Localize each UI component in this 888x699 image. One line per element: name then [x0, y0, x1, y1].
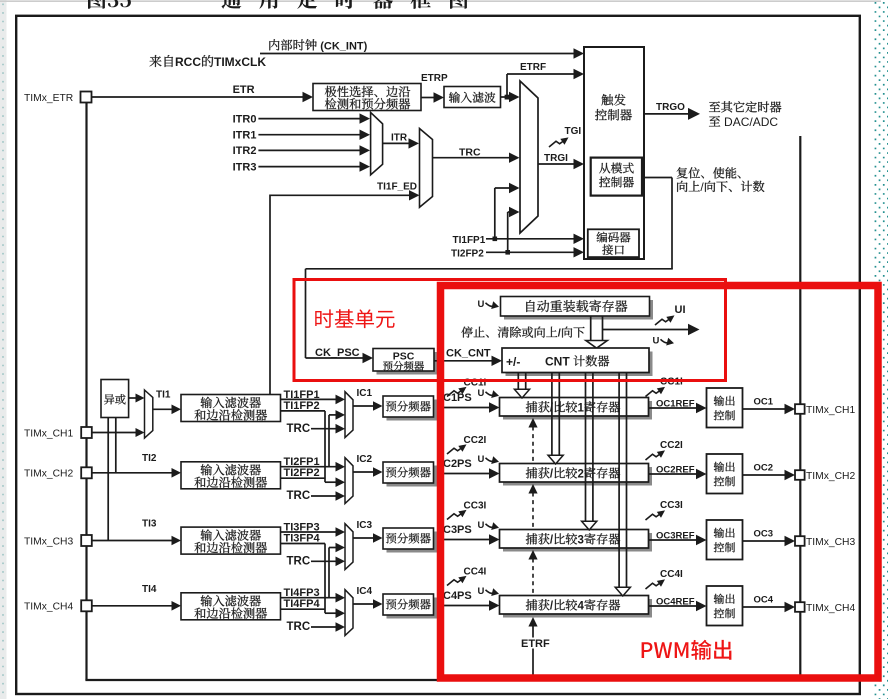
wire counter bus to CCR4: [618, 373, 620, 588]
wire mux input 2 row 2: [325, 481, 337, 483]
svg-text:1: 1: [578, 403, 585, 415]
counter CNT: [506, 352, 653, 377]
block output control 3: [707, 520, 743, 560]
svg-text:TRC: TRC: [287, 423, 311, 435]
mux TI1 selector: [145, 390, 153, 438]
wire ETRF into CCR4: [528, 617, 537, 627]
svg-text:ITR: ITR: [391, 133, 408, 144]
mux TRGI selector: [520, 81, 538, 233]
svg-text:CC2I: CC2I: [464, 435, 487, 446]
pad TIMx_CH1 left: [81, 427, 92, 438]
node CK_INT internal clock label: [269, 39, 316, 50]
svg-text:TIMx_CH3: TIMx_CH3: [806, 537, 855, 548]
gate XOR: [101, 380, 129, 418]
wire TI2FP1 cross up: [328, 415, 330, 467]
svg-text:U: U: [478, 454, 485, 465]
wire XOR output: [129, 397, 136, 399]
svg-text:ITR3: ITR3: [233, 161, 257, 173]
svg-text:CC2I: CC2I: [660, 440, 683, 451]
annotation label PWM输出: [642, 640, 732, 660]
svg-text:OC2: OC2: [754, 463, 774, 474]
svg-text:C3PS: C3PS: [443, 524, 472, 536]
svg-text:4: 4: [578, 601, 585, 613]
wire XOR input from CH2: [115, 418, 117, 473]
svg-text:TI1FP1: TI1FP1: [453, 235, 486, 246]
wire counter bus to CCR2: [551, 373, 553, 456]
svg-text:/: /: [558, 328, 561, 340]
register capture/compare 4 CCR4: [503, 599, 652, 618]
svg-text:UI: UI: [675, 304, 686, 316]
block output control 1: [707, 388, 743, 428]
svg-text:U: U: [478, 299, 485, 310]
register auto-reload ARR: [504, 300, 653, 320]
svg-text:CC3I: CC3I: [660, 500, 683, 511]
svg-text:IC3: IC3: [357, 520, 373, 531]
svg-text:TIMx_CH4: TIMx_CH4: [806, 603, 855, 614]
svg-text:TGI: TGI: [565, 126, 582, 137]
register capture/compare 1 CCR1: [503, 401, 652, 420]
svg-text:ETR: ETR: [233, 84, 255, 96]
mux TRC selector: [420, 129, 433, 208]
node to other timers / DAC ADC: [709, 101, 781, 112]
svg-text:ETRF: ETRF: [520, 62, 546, 73]
interrupt CC4I left: [447, 580, 461, 586]
wire TI4FP3 cross up: [328, 548, 330, 598]
svg-text:TRC: TRC: [287, 490, 311, 502]
svg-text:PSC: PSC: [393, 351, 415, 363]
block slave mode controller: [591, 158, 642, 196]
pad TIMx_CH3 right: [795, 536, 805, 546]
node ETRF junction: [505, 95, 510, 100]
svg-text:TIMxCLK: TIMxCLK: [214, 55, 266, 69]
interrupt UI: [655, 319, 669, 325]
block prescaler IC3: [387, 532, 438, 553]
svg-text:OC3: OC3: [754, 529, 774, 540]
pad TIMx_CH3 left: [81, 535, 92, 546]
annotation time-base unit red box: [294, 280, 726, 381]
pad TIMx_CH2 right: [795, 470, 805, 480]
annotation label 时基单元: [315, 309, 394, 328]
svg-text:ETRF: ETRF: [521, 638, 550, 650]
wire mux input 2 row 3: [329, 547, 337, 549]
node stop clear up/down label: [461, 327, 584, 338]
block input filter & edge detector 2: [181, 462, 281, 489]
mux IC2 selector: [345, 458, 353, 504]
block input filter & edge detector 4: [181, 593, 281, 620]
block prescaler IC2: [387, 466, 438, 487]
svg-text:(CK_INT): (CK_INT): [317, 41, 367, 53]
mux ITR selector: [371, 112, 383, 174]
svg-text:TRC: TRC: [287, 556, 311, 568]
wire CK_INT: [260, 53, 575, 55]
mux IC4 selector: [345, 590, 353, 636]
svg-text:ITR2: ITR2: [233, 145, 257, 157]
svg-text:OC4: OC4: [754, 595, 774, 606]
svg-text:TI3: TI3: [142, 519, 157, 530]
svg-text:CC3I: CC3I: [464, 501, 487, 512]
interrupt CC2I left: [447, 448, 461, 454]
register capture/compare 2 CCR2: [503, 467, 652, 486]
hollow arrow ARR to CNT: [590, 316, 592, 341]
svg-text:C2PS: C2PS: [443, 458, 472, 470]
svg-text:CC4I: CC4I: [660, 569, 683, 580]
wire slave controller to time base: [642, 177, 672, 179]
svg-text:RCC: RCC: [175, 55, 201, 69]
block prescaler IC4: [387, 598, 438, 619]
svg-text:TRC: TRC: [459, 146, 481, 158]
interrupt CC1I right: [646, 391, 660, 397]
svg-text:IC1: IC1: [357, 388, 373, 399]
svg-text:TI1F_ED: TI1F_ED: [377, 182, 417, 193]
svg-text:2: 2: [578, 469, 584, 481]
svg-text:TIMx_CH2: TIMx_CH2: [806, 471, 855, 482]
block prescaler IC1: [387, 400, 438, 421]
interrupt CC3I right: [646, 514, 660, 520]
interrupt CC4I right: [646, 583, 660, 589]
pad TIMx_CH1 right: [795, 404, 805, 414]
wire filter to TRGI mux: [501, 96, 512, 98]
wire counter bus to CCR3: [585, 373, 587, 522]
wire mux input 2 row 1: [329, 414, 337, 416]
mux IC1 selector: [345, 392, 353, 438]
block PSC prescaler: [377, 352, 438, 375]
svg-text:IC2: IC2: [357, 454, 373, 465]
svg-text:C4PS: C4PS: [443, 590, 472, 602]
svg-text:ETRP: ETRP: [421, 73, 448, 84]
wire capture dashed to CCR1: [528, 418, 537, 428]
svg-text:TI2: TI2: [142, 453, 157, 464]
svg-text:TI4: TI4: [142, 584, 157, 595]
wire capture dashed to CCR2: [528, 484, 537, 494]
interrupt CC1I left: [447, 391, 461, 397]
svg-text:ITR0: ITR0: [233, 113, 257, 125]
block polarity selection / edge detector & prescaler: [313, 84, 421, 111]
left boundary bus wire: [85, 103, 87, 681]
svg-text:OC1: OC1: [754, 397, 774, 408]
svg-text:CC4I: CC4I: [464, 567, 487, 578]
pad TIMx_CH4 right: [795, 602, 805, 612]
node TIMxCLK from RCC label: [150, 55, 214, 67]
svg-text:DAC/ADC: DAC/ADC: [721, 115, 779, 129]
register capture/compare 3 CCR3: [503, 533, 652, 552]
wire TI3FP4 cross down: [324, 544, 326, 614]
mux IC3 selector: [345, 524, 353, 570]
svg-text:TI2FP2: TI2FP2: [451, 249, 484, 260]
svg-text:U: U: [478, 586, 485, 597]
svg-text:TRGI: TRGI: [544, 153, 568, 164]
svg-text:TIMx_CH4: TIMx_CH4: [24, 602, 73, 613]
wire CH1 into TI1 mux: [92, 432, 137, 434]
wire capture dashed to CCR3: [528, 550, 537, 560]
svg-text:TRC: TRC: [287, 621, 311, 633]
svg-text:CNT: CNT: [545, 355, 573, 369]
wire mux input 2 row 4: [325, 612, 337, 614]
svg-text:IC4: IC4: [357, 586, 373, 597]
svg-text:TIMx_CH3: TIMx_CH3: [24, 536, 73, 547]
wire XOR input from CH3: [107, 418, 109, 541]
block input filter & edge detector 3: [181, 527, 281, 554]
wire bottom ETRF return: [85, 679, 800, 681]
svg-text:TRGO: TRGO: [656, 102, 685, 113]
right boundary bus wire: [799, 136, 801, 680]
svg-text:U: U: [478, 388, 485, 399]
svg-text:TI1: TI1: [156, 390, 171, 401]
block output control 2: [707, 454, 743, 494]
svg-text:TIMx_CH1: TIMx_CH1: [806, 405, 855, 416]
svg-text:3: 3: [578, 535, 584, 547]
svg-text:U: U: [478, 520, 485, 531]
svg-text:+/-: +/-: [506, 355, 520, 369]
pad TIMx_CH4 left: [81, 600, 92, 611]
wire TI1FP2 cross down: [324, 411, 326, 482]
interrupt TGI: [549, 141, 563, 147]
svg-text:TIMx_CH2: TIMx_CH2: [24, 469, 73, 480]
svg-text:ITR1: ITR1: [233, 130, 257, 142]
block input filter ETR: [444, 87, 501, 108]
node reset enable up/down count label: [677, 167, 741, 178]
svg-text:CK_CNT: CK_CNT: [446, 348, 491, 360]
wire update event: [603, 329, 689, 331]
block trigger controller U_TRGCTL: [584, 47, 644, 259]
block encoder interface: [588, 229, 639, 257]
interrupt CC3I left: [447, 514, 461, 520]
annotation PWM output red box: [441, 286, 879, 679]
svg-text:U: U: [653, 336, 660, 347]
block output control 4: [707, 586, 743, 626]
block input filter & edge detector 1: [181, 395, 281, 422]
svg-text:TIMx_ETR: TIMx_ETR: [24, 93, 73, 104]
svg-text:TIMx_CH1: TIMx_CH1: [24, 428, 73, 439]
wire counter bus to CCR1: [517, 373, 519, 390]
interrupt CC2I right: [646, 454, 660, 460]
pad TIMx_CH2 left: [81, 467, 92, 478]
